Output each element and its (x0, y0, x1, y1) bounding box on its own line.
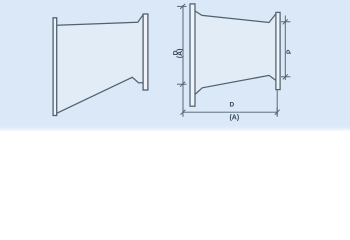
right reducer: large-end flange (left) (190, 4, 195, 106)
svg-text:(A): (A) (229, 114, 239, 121)
tick arrow: left of bottom dimension (181, 108, 186, 117)
left reducer: bottom line (57, 77, 143, 113)
tick arrow: top of vertical D dimension (177, 4, 187, 9)
left reducer: top line (57, 15, 143, 26)
left reducer: large-end flange (left) (53, 18, 57, 116)
right reducer: top line (195, 11, 276, 23)
right reducer: bottom line (195, 75, 276, 94)
tick arrow: bottom of P dimension (281, 74, 290, 79)
svg-text:D: D (230, 102, 235, 109)
tick arrow: top of P dimension (281, 19, 290, 24)
tick arrow: right of bottom dimension (275, 108, 280, 117)
svg-text:P: P (286, 49, 293, 54)
dimension line: horizontal D (A) at bottom (183, 111, 277, 113)
dimension line: vertical D (A) at left of right reducer (182, 5, 184, 113)
dimension line: vertical P at right of right reducer (284, 16, 286, 81)
left reducer: cone body fill (57, 15, 143, 114)
right reducer: cone body fill (195, 11, 276, 94)
extension line: below right flange (276, 90, 278, 116)
svg-text:(A): (A) (177, 49, 184, 59)
right reducer: small-end flange (right) (276, 12, 280, 89)
tick arrow: bottom of vertical D dimension (177, 82, 187, 87)
left reducer: small-end flange (right) (143, 14, 148, 90)
